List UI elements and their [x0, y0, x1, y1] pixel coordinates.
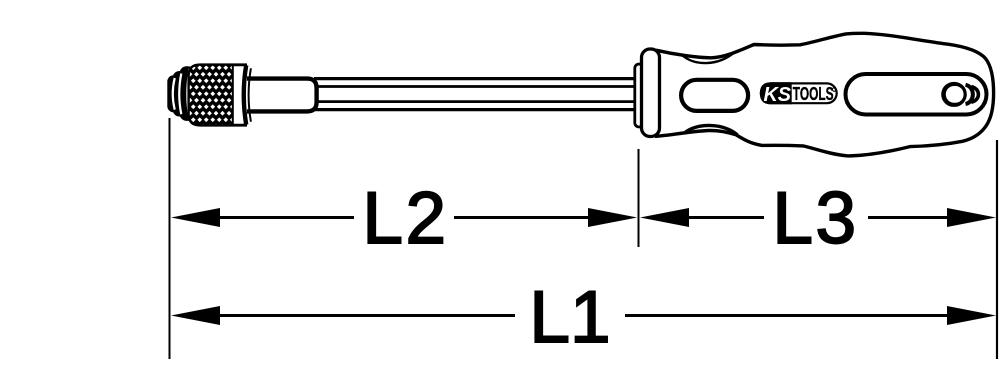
end cap capsule (black) — [941, 82, 967, 107]
handle body — [655, 33, 994, 156]
svg-text:TOOLS: TOOLS — [793, 83, 834, 104]
svg-text:L3: L3 — [772, 178, 858, 259]
handle top crescent contour — [682, 52, 735, 63]
dimension L3 — [640, 178, 996, 259]
extension line left — [169, 118, 171, 359]
handle front cap — [642, 49, 660, 137]
dimension L1 — [171, 277, 996, 358]
knurled barrel — [189, 65, 233, 125]
dimension L2 — [171, 178, 637, 259]
shaft (hex blade, 4 lines) — [314, 79, 639, 110]
ferrule — [635, 64, 643, 127]
chuck sleeve rim thin arc — [249, 68, 251, 121]
extension line middle — [638, 149, 640, 247]
extension line right — [996, 140, 998, 359]
end cap inner white capsule — [946, 86, 964, 103]
left cap white arc 2 — [179, 74, 181, 115]
left cap white arc 1 — [173, 78, 175, 110]
KS TOOLS logo — [760, 82, 837, 106]
rear hang-hole panel — [846, 74, 987, 115]
svg-text:KS: KS — [764, 84, 792, 106]
svg-text:L2: L2 — [362, 178, 448, 259]
left cap white arc 3 — [187, 69, 189, 119]
svg-text:L1: L1 — [529, 277, 610, 358]
handle oval hole — [681, 80, 748, 111]
handle bottom crescent contour — [684, 125, 738, 134]
chuck left end cap (black mass) — [167, 66, 195, 121]
chuck sleeve rim thick arc — [244, 65, 246, 124]
end cap echo arc 3 (black thin) — [971, 87, 978, 103]
chuck body outline (knurled barrel + white band) — [189, 65, 246, 125]
collar (smooth sleeve) — [247, 79, 317, 112]
end cap echo arc 2 (black) — [966, 85, 973, 104]
